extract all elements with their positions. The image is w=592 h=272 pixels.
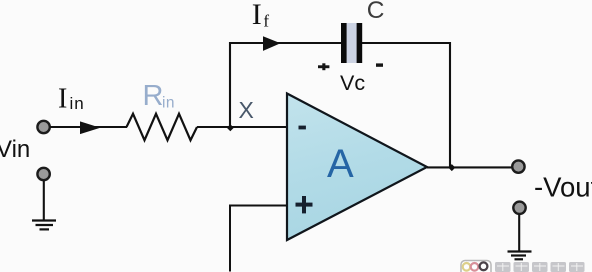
wire output (427, 166, 512, 168)
wire ground right (518, 215, 520, 251)
op-amp inverting input - (299, 126, 306, 130)
svg-text:in: in (70, 94, 85, 113)
svg-text:in: in (162, 94, 175, 111)
resistor R_in (127, 114, 198, 140)
wire input (50, 126, 127, 128)
svg-text:C: C (367, 0, 385, 24)
terminal Vin (37, 121, 49, 133)
ground left (32, 221, 56, 230)
svg-text:Vin: Vin (0, 136, 30, 163)
label - (capacitor) (376, 63, 383, 66)
svg-text:f: f (263, 12, 269, 31)
watermark text (495, 262, 585, 272)
wire non-inverting input (230, 206, 287, 272)
wire feedback top (229, 42, 342, 44)
wire ground left (43, 181, 45, 220)
svg-text:R: R (143, 80, 164, 112)
svg-text:-Vout: -Vout (534, 172, 592, 203)
node X junction (227, 124, 234, 131)
wire feedback vertical left (229, 42, 231, 127)
ground right (508, 252, 532, 260)
op-amp non-inverting input + (296, 196, 313, 213)
terminal ground left (37, 168, 49, 180)
svg-text:I: I (58, 84, 67, 115)
wire capacitor to right corner (362, 42, 451, 44)
terminal ground right (513, 202, 525, 214)
wire resistor to node X (197, 126, 287, 128)
label + (capacitor) (318, 63, 329, 70)
svg-text:Vc: Vc (340, 71, 365, 95)
op-amp A (287, 94, 427, 241)
svg-text:X: X (239, 97, 254, 123)
current arrow I_f (263, 36, 281, 51)
svg-text:A: A (327, 142, 354, 186)
svg-text:I: I (252, 0, 262, 31)
wire feedback vertical right (449, 42, 451, 168)
terminal -Vout (512, 160, 524, 172)
node output junction (448, 164, 455, 171)
current arrow I_in (80, 121, 100, 134)
capacitor C (341, 23, 362, 63)
watermark logo (461, 261, 491, 272)
